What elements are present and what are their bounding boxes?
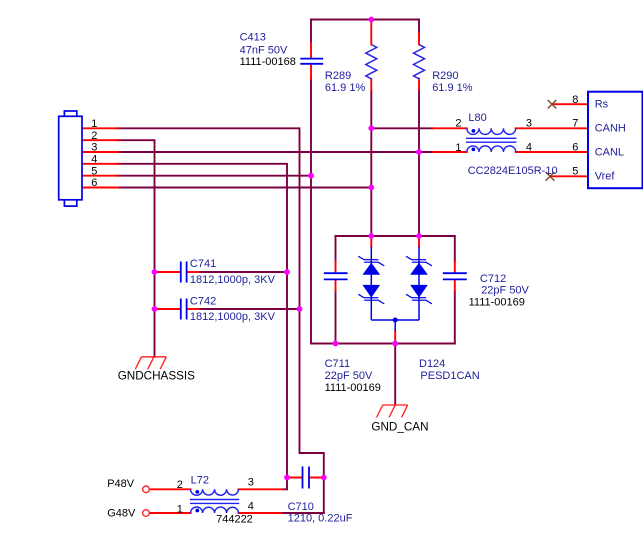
svg-text:1111-00169: 1111-00169 — [469, 297, 525, 309]
svg-text:1: 1 — [91, 118, 97, 130]
svg-text:C413: C413 — [240, 32, 266, 44]
svg-text:5: 5 — [91, 165, 97, 177]
svg-text:4: 4 — [248, 501, 254, 513]
svg-text:61.9 1%: 61.9 1% — [325, 82, 366, 94]
svg-text:C742: C742 — [190, 295, 216, 307]
svg-text:744222: 744222 — [216, 513, 253, 525]
svg-text:CANL: CANL — [595, 147, 624, 159]
svg-text:CANH: CANH — [595, 123, 626, 135]
svg-text:1111-00168: 1111-00168 — [240, 56, 296, 68]
svg-text:C710: C710 — [288, 501, 314, 513]
svg-text:L72: L72 — [191, 475, 209, 487]
svg-text:3: 3 — [91, 142, 97, 154]
svg-text:1812,1000p, 3KV: 1812,1000p, 3KV — [190, 274, 276, 286]
svg-text:G48V: G48V — [107, 507, 136, 519]
svg-text:1111-00169: 1111-00169 — [325, 382, 381, 394]
svg-text:1812,1000p, 3KV: 1812,1000p, 3KV — [190, 311, 276, 323]
svg-text:2: 2 — [91, 130, 97, 142]
svg-text:R289: R289 — [325, 70, 351, 82]
svg-text:D124: D124 — [419, 358, 445, 370]
svg-text:4: 4 — [526, 142, 532, 154]
svg-text:22pF 50V: 22pF 50V — [325, 370, 373, 382]
svg-text:3: 3 — [526, 118, 532, 130]
svg-text:C741: C741 — [190, 258, 216, 270]
svg-text:6: 6 — [91, 177, 97, 189]
svg-text:1210, 0.22uF: 1210, 0.22uF — [288, 513, 353, 525]
svg-text:2: 2 — [177, 479, 183, 491]
svg-text:Rs: Rs — [595, 98, 609, 110]
svg-text:3: 3 — [248, 477, 254, 489]
svg-text:P48V: P48V — [107, 478, 135, 490]
svg-text:7: 7 — [572, 118, 578, 130]
svg-text:R290: R290 — [432, 70, 458, 82]
svg-text:PESD1CAN: PESD1CAN — [420, 370, 479, 382]
svg-text:C712: C712 — [480, 273, 506, 285]
svg-text:L80: L80 — [468, 112, 486, 124]
svg-text:1: 1 — [177, 504, 183, 516]
svg-text:6: 6 — [572, 142, 578, 154]
svg-text:5: 5 — [572, 166, 578, 178]
svg-text:Vref: Vref — [595, 171, 616, 183]
svg-text:CC2824E105R-10: CC2824E105R-10 — [468, 165, 558, 177]
svg-text:47nF 50V: 47nF 50V — [240, 45, 288, 57]
svg-text:GND_CAN: GND_CAN — [371, 421, 428, 434]
svg-text:4: 4 — [91, 154, 97, 166]
svg-text:8: 8 — [572, 94, 578, 106]
svg-text:GNDCHASSIS: GNDCHASSIS — [118, 370, 195, 383]
svg-text:C711: C711 — [325, 358, 350, 370]
svg-text:1: 1 — [455, 142, 461, 154]
svg-text:22pF 50V: 22pF 50V — [481, 285, 529, 297]
svg-text:61.9 1%: 61.9 1% — [432, 82, 473, 94]
svg-text:2: 2 — [455, 118, 461, 130]
